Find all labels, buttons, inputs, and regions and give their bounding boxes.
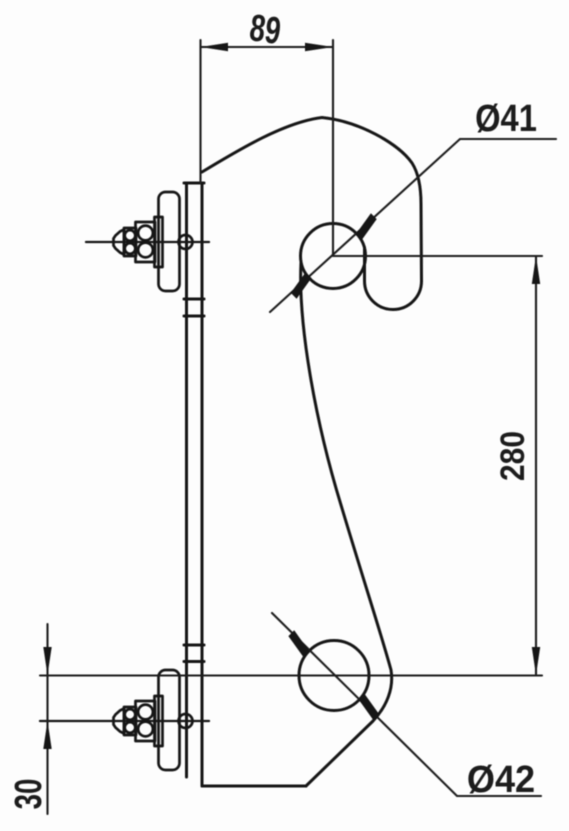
bolt B2 washer plate: [159, 670, 180, 770]
plate break line upper pair: [184, 299, 204, 316]
dim 280 arrow bottom: [532, 647, 540, 675]
bolt B1 nose tip: [114, 230, 125, 255]
bolt B2 shaft end circle at plate: [179, 714, 193, 728]
svg-text:89: 89: [247, 7, 283, 53]
plate top edge: [184, 182, 204, 185]
dimension Ø42 leader: [272, 613, 541, 796]
bolt B1 shaft end circle at plate: [179, 235, 193, 249]
dim 280 arrow top: [532, 256, 540, 284]
dim Ø41 arrow lower-left: [291, 272, 312, 299]
dim 89 arrow left: [201, 43, 229, 51]
bolt B1 small hex section: [124, 228, 136, 256]
hook slot U bottom: [365, 248, 422, 310]
dim 280 dimension line: [535, 256, 537, 675]
bolt B2 large hex section: [136, 701, 156, 741]
bolt B2 centerline: [40, 720, 209, 722]
dim 280 / 30 shared reference centerline: [40, 674, 542, 676]
body top arc outline: [202, 118, 422, 282]
plate left edge: [185, 183, 188, 777]
dim 30 arrow upper: [43, 647, 51, 675]
dim 30 arrow lower: [43, 721, 51, 749]
plate break line lower pair: [184, 645, 204, 662]
bolt B2 small hex section: [124, 707, 136, 735]
dimension 89: [201, 40, 334, 256]
bolt B1 large hex section: [136, 222, 156, 262]
dim 89 dimension line: [201, 46, 334, 48]
dim 89 extension line right: [332, 40, 334, 256]
svg-text:Ø41: Ø41: [475, 97, 537, 140]
bolt B1 centerline: [86, 241, 209, 243]
dim Ø42 arrow upper-left: [288, 630, 309, 657]
dimension 280: [40, 256, 542, 676]
body right S-curve edge: [301, 262, 392, 786]
dimension 30: [46, 624, 48, 814]
dimension Ø41 leader: [270, 139, 556, 312]
body bottom edge: [202, 785, 306, 788]
dim 89 extension line left: [199, 40, 201, 183]
dim 30 dimension line: [46, 624, 48, 814]
svg-text:30: 30: [8, 779, 50, 810]
bottom hole circle (Ø42): [299, 641, 369, 711]
svg-text:Ø42: Ø42: [467, 757, 535, 800]
bolt B2 nose tip: [114, 709, 125, 734]
dim 280 top reference line: [333, 255, 542, 257]
dim 89 arrow right: [305, 43, 333, 51]
hook eye circle (Ø41): [301, 224, 366, 289]
bolt B2 flange: [155, 696, 163, 746]
plate right edge: [201, 183, 204, 786]
bolt B1 (upper): [86, 192, 209, 291]
bolt B1 flange: [155, 217, 163, 267]
dim Ø41 arrow upper-right: [356, 213, 377, 240]
bolt B2 (lower): [40, 670, 209, 770]
dim Ø42 arrow lower-right: [359, 694, 380, 721]
svg-text:280: 280: [493, 431, 531, 481]
bolt B1 washer plate: [159, 192, 180, 291]
